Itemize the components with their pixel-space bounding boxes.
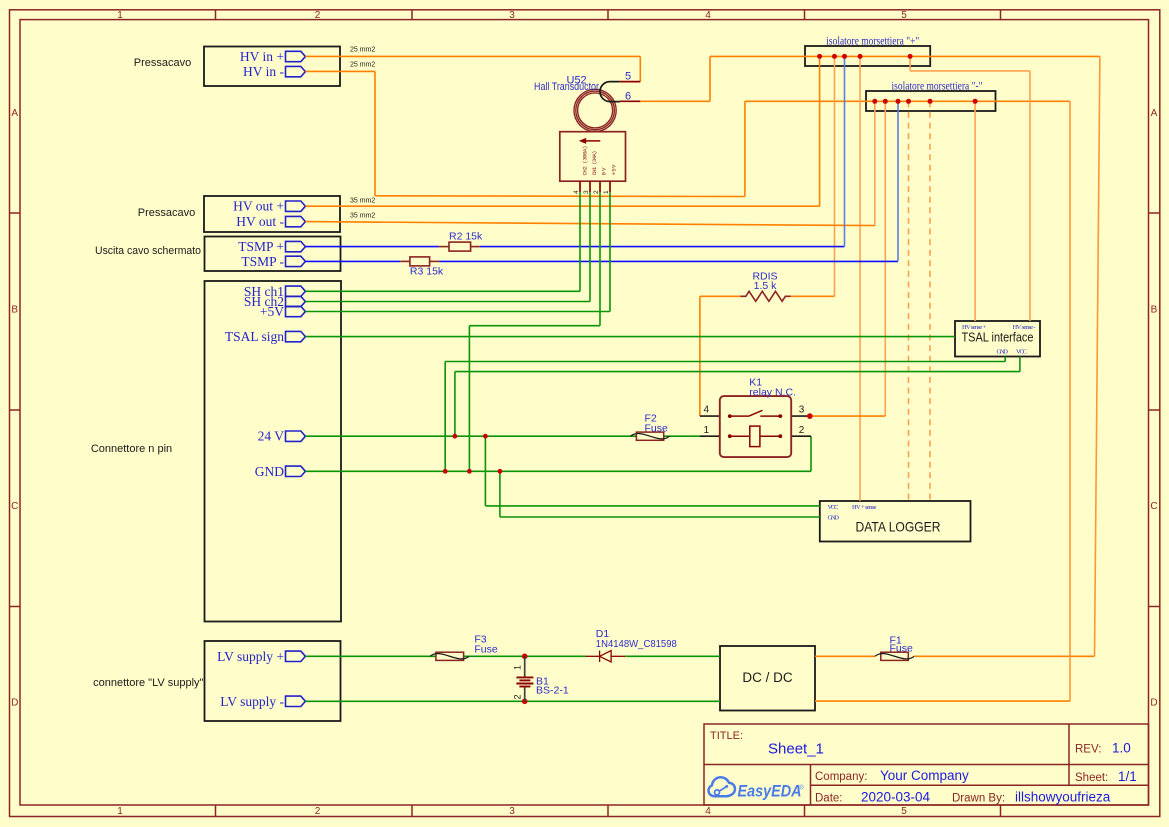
wire net HV_in+ horizontal from port to hall pin 5 riser xyxy=(305,55,640,57)
wire branch RDIS riser x834.5 xyxy=(834,56,836,296)
svg-text:R2 15k: R2 15k xyxy=(449,230,483,242)
border tick left B/C xyxy=(10,409,21,411)
wire branch HV out - riser x874.8 xyxy=(874,101,876,225)
svg-text:3: 3 xyxy=(799,405,805,416)
svg-text:1.0: 1.0 xyxy=(1112,741,1131,756)
svg-text:5: 5 xyxy=(901,806,907,817)
port symbol TSAL sign xyxy=(286,331,306,341)
svg-text:1: 1 xyxy=(513,665,523,670)
block DATA LOGGER xyxy=(820,501,971,542)
wire relay pin 4 stub xyxy=(700,415,720,417)
junction dot plus rail x834.5 xyxy=(832,54,837,59)
border tick bottom 4/5 xyxy=(804,805,806,817)
junction dot relay pin 3 xyxy=(807,413,813,419)
port symbol 24 V xyxy=(286,431,306,441)
wire DC/DC plus output to F1 left xyxy=(815,655,875,657)
svg-text:4: 4 xyxy=(705,806,711,817)
junction dot battery B1 bottom xyxy=(522,699,528,705)
svg-text:1: 1 xyxy=(117,806,123,817)
svg-text:1: 1 xyxy=(117,10,123,21)
svg-text:2: 2 xyxy=(513,694,523,699)
wire HV out + horizontal to port xyxy=(305,205,819,207)
svg-text:+5V: +5V xyxy=(260,304,284,319)
junction dot minus rail x930 xyxy=(928,99,933,104)
svg-text:HV in +: HV in + xyxy=(240,49,284,64)
connector box Pressacavo HV out xyxy=(204,196,340,232)
wire net HV_in- vertical drop at x375 xyxy=(374,71,376,195)
svg-text:2: 2 xyxy=(315,10,321,21)
svg-text:3: 3 xyxy=(583,190,590,194)
svg-text:LV supply -: LV supply - xyxy=(220,694,284,709)
wire net HV_in- horizontal run y196 xyxy=(375,195,745,198)
port symbol LV supply - xyxy=(286,696,306,706)
title block outer border xyxy=(704,724,1149,805)
title block divider left of REV/Sheet xyxy=(1068,724,1070,785)
wire net TSMP+ from port to R2 xyxy=(305,246,438,248)
svg-text:GND: GND xyxy=(997,349,1009,356)
wire DATA LOGGER VCC drop from 24V rail xyxy=(484,436,486,506)
wire TSAL GND horizontal y361.5 xyxy=(445,361,1005,363)
wire morsettiera minus rail y101 xyxy=(745,100,1070,102)
wire net hall pin 6 riser up to morsettiera plus rail xyxy=(709,56,711,101)
wire DATA LOGGER GND drop from GND rail xyxy=(499,471,501,517)
wire dashed DATA LOGGER sense riser x908.5 xyxy=(908,101,910,501)
svg-text:Your Company: Your Company xyxy=(880,768,969,783)
svg-text:C: C xyxy=(11,501,18,512)
svg-text:Company:: Company: xyxy=(815,771,867,783)
svg-text:D: D xyxy=(1150,698,1157,709)
svg-text:Sheet:: Sheet: xyxy=(1075,772,1108,784)
svg-text:DC / DC: DC / DC xyxy=(742,670,793,685)
wire net LV supply + F3 to diode D1 xyxy=(464,655,586,657)
border tick bottom 3/4 xyxy=(607,805,609,817)
svg-text:A: A xyxy=(1151,108,1158,119)
wire RDIS drop to relay pin 4 xyxy=(699,296,701,416)
wire net LV supply - port to DC/DC xyxy=(305,700,720,702)
border tick right B/C xyxy=(1149,409,1160,411)
svg-text:1.5 k: 1.5 k xyxy=(754,280,778,292)
svg-text:B: B xyxy=(1151,305,1158,316)
relay K1 coil xyxy=(728,426,782,447)
border tick top 1/2 xyxy=(215,10,217,20)
wire net TSMP+ from R2 to riser xyxy=(480,246,845,248)
svg-text:TSAL interface: TSAL interface xyxy=(962,331,1034,345)
wire TSAL GND drop to GND rail xyxy=(444,362,446,472)
svg-text:25 mm2: 25 mm2 xyxy=(350,62,375,69)
svg-text:EasyEDA: EasyEDA xyxy=(738,782,802,801)
block DC / DC converter xyxy=(720,646,815,711)
wire net 0V horizontal y325.7 xyxy=(469,325,600,327)
svg-text:5: 5 xyxy=(901,10,907,21)
connector box Pressacavo HV in xyxy=(204,47,340,87)
hall transductor U52 primary wire loop (black) xyxy=(600,82,620,102)
wire DATA LOGGER VCC horizontal y505.9 xyxy=(485,505,819,507)
junction dot battery B1 top xyxy=(522,654,528,660)
hall transductor U52 current direction arrow xyxy=(579,138,601,144)
border tick left A/B xyxy=(10,212,21,214)
wire net 0V riser from hall pin 2 xyxy=(599,192,601,325)
wire HV out - horizontal to port xyxy=(305,222,874,226)
svg-text:4: 4 xyxy=(704,405,710,416)
title block divider under title row xyxy=(704,764,1149,766)
border tick top 3/4 xyxy=(607,10,609,20)
hall transductor U52 body box xyxy=(560,132,626,182)
svg-text:TSAL sign: TSAL sign xyxy=(225,329,284,344)
wire relay pin 2 stub xyxy=(791,435,811,437)
svg-text:VCC: VCC xyxy=(1016,349,1027,356)
port symbol SH ch1 xyxy=(286,286,306,296)
wire net TSMP- from R3 to riser xyxy=(439,260,898,262)
junction dot minus rail x874.8 xyxy=(872,99,877,104)
svg-text:Drawn By:: Drawn By: xyxy=(952,793,1005,805)
connector box connettore LV supply xyxy=(205,641,341,721)
border tick top 4/5 xyxy=(804,10,806,20)
port symbol HV in + xyxy=(286,51,306,61)
svg-text:LV supply +: LV supply + xyxy=(217,649,284,664)
svg-text:DATA LOGGER: DATA LOGGER xyxy=(856,519,941,535)
junction dot GND rail x499.9 xyxy=(498,469,503,474)
svg-text:2020-03-04: 2020-03-04 xyxy=(861,790,931,805)
terminal block isolatore morsettiera "+" xyxy=(805,46,930,66)
fuse F1 body xyxy=(875,652,914,660)
wire morsettiera minus rail drop at right xyxy=(1069,101,1071,701)
title block divider right of logo xyxy=(810,765,812,806)
wire net SH ch1 riser to hall pin 4 xyxy=(579,192,581,291)
svg-text:Hall Transductor: Hall Transductor xyxy=(534,81,599,93)
svg-text:Fuse: Fuse xyxy=(645,423,669,435)
svg-text:24 V: 24 V xyxy=(258,429,285,444)
svg-text:3: 3 xyxy=(509,10,515,21)
border tick bottom 1/2 xyxy=(215,805,217,817)
svg-text:1/1: 1/1 xyxy=(1118,769,1137,784)
svg-text:Pressacavo: Pressacavo xyxy=(134,57,191,69)
border tick right A/B xyxy=(1149,212,1160,214)
wire TSAL GND stub down xyxy=(1004,357,1006,362)
svg-text:35 mm2: 35 mm2 xyxy=(350,198,375,205)
wire net hall pin 6 horizontal to riser xyxy=(640,100,710,102)
svg-text:HV + sense: HV + sense xyxy=(852,504,877,511)
resistor R2 body xyxy=(439,242,480,251)
svg-text:5: 5 xyxy=(625,71,631,83)
svg-text:HV out +: HV out + xyxy=(233,199,284,214)
junction dot minus rail x908.5 xyxy=(906,99,911,104)
port symbol GND xyxy=(286,466,306,476)
battery B1 stem bottom xyxy=(524,687,526,702)
svg-text:GND: GND xyxy=(828,515,840,522)
svg-text:CH2 (300A): CH2 (300A) xyxy=(582,146,589,176)
wire RDIS right horizontal xyxy=(789,295,835,297)
svg-text:HV in -: HV in - xyxy=(243,64,285,79)
wire RDIS left horizontal xyxy=(700,295,742,297)
hall transductor U52 toroid rings xyxy=(574,89,616,131)
svg-text:illshowyoufrieza: illshowyoufrieza xyxy=(1015,790,1111,805)
svg-text:isolatore morsettiera "+": isolatore morsettiera "+" xyxy=(826,34,919,48)
hall transductor U52 pin stubs 4,3,2,1 xyxy=(580,181,610,192)
svg-text:TITLE:: TITLE: xyxy=(710,730,743,742)
svg-text:B: B xyxy=(11,305,18,316)
border tick bottom 2/3 xyxy=(411,805,413,817)
wire net SH ch2 riser to hall pin 3 xyxy=(589,192,591,301)
wire DC/DC minus output run y701 xyxy=(815,700,1070,702)
battery B1 stem top xyxy=(524,656,526,677)
wire net HV_in- horizontal from port xyxy=(305,70,375,72)
svg-text:GND: GND xyxy=(255,464,284,479)
svg-text:2: 2 xyxy=(315,806,321,817)
junction dot plus rail x819.6 xyxy=(817,54,822,59)
wire net LV supply + port to F3 xyxy=(305,655,436,657)
junction dot GND rail x445.2 xyxy=(443,469,448,474)
svg-text:connettore "LV supply": connettore "LV supply" xyxy=(93,677,203,689)
wire net TSMP+ riser to plus rail xyxy=(844,56,846,246)
wire DATA LOGGER GND horizontal y517 xyxy=(500,516,820,518)
wire net HV_in- riser at x745 up to morsettiera minus rail xyxy=(744,101,746,196)
svg-text:0V: 0V xyxy=(601,167,608,176)
block TSAL interface xyxy=(955,321,1040,357)
connector box Uscita cavo schermato xyxy=(205,237,341,272)
wire net 24V horizontal port to F2 xyxy=(305,435,636,437)
wire net 0V drop to GND rail xyxy=(468,326,470,472)
port symbol HV out + xyxy=(286,201,306,211)
junction dot 24V rail x485.4 xyxy=(483,434,488,439)
svg-text:HV sense -: HV sense - xyxy=(1013,324,1036,331)
svg-text:Pressacavo: Pressacavo xyxy=(138,207,195,219)
svg-text:25 mm2: 25 mm2 xyxy=(350,47,375,54)
svg-text:Date:: Date: xyxy=(815,793,843,805)
svg-text:4: 4 xyxy=(705,10,711,21)
svg-text:VCC: VCC xyxy=(828,504,839,511)
junction dot plus rail x844.5 xyxy=(842,54,847,59)
wire net +5V riser to hall pin 1 xyxy=(609,192,611,311)
wire branch DATA LOGGER HV+sense riser x860.1 xyxy=(859,56,861,501)
border tick top 2/3 xyxy=(411,10,413,20)
wire net SH ch1 horizontal xyxy=(305,290,580,292)
border tick bottom 5/6 xyxy=(1000,805,1002,817)
svg-text:isolatore morsettiera "-": isolatore morsettiera "-" xyxy=(892,79,983,93)
border tick left C/D xyxy=(10,606,21,608)
svg-text:2: 2 xyxy=(799,425,805,436)
connector box Connettore n pin xyxy=(205,281,342,622)
svg-text:relay N.C.: relay N.C. xyxy=(749,387,796,399)
port symbol TSMP - xyxy=(286,256,306,266)
wire net SH ch2 horizontal xyxy=(305,301,590,303)
svg-text:Connettore n pin: Connettore n pin xyxy=(91,443,172,455)
svg-text:Fuse: Fuse xyxy=(474,644,498,656)
junction dot minus rail x975.1 xyxy=(973,99,978,104)
svg-text:Sheet_1: Sheet_1 xyxy=(768,741,824,758)
port symbol TSMP + xyxy=(286,241,306,251)
wire TSAL HV sense - drop x1030 xyxy=(1029,71,1031,321)
resistor R3 body xyxy=(400,257,439,266)
wire net TSMP- from port to R3 xyxy=(305,260,400,262)
EasyEDA logo cloud icon xyxy=(708,777,735,796)
hall transductor U52 pin 5 stub xyxy=(620,81,641,83)
wire F1 right to DC/DC rail xyxy=(914,655,1095,657)
junction dot minus rail x898 xyxy=(896,99,901,104)
fuse F3 body xyxy=(430,652,469,660)
wire TSAL VCC drop to 24V rail xyxy=(454,372,456,437)
wire relay pin 3 stub xyxy=(791,415,810,417)
svg-text:2: 2 xyxy=(593,190,600,194)
svg-text:A: A xyxy=(11,108,18,119)
svg-text:TSMP +: TSMP + xyxy=(238,239,284,254)
wire branch TSAL HV sense + riser x975.1 xyxy=(974,101,976,321)
wire TSAL VCC horizontal y371.6 xyxy=(455,371,1020,373)
svg-text:CH1 (34A): CH1 (34A) xyxy=(591,151,598,176)
svg-text:6: 6 xyxy=(625,91,631,103)
svg-text:R3 15k: R3 15k xyxy=(410,265,444,277)
port symbol HV out - xyxy=(286,216,306,226)
border tick top 5/6 xyxy=(1000,10,1002,20)
wire morsettiera plus rail y56 xyxy=(710,55,1100,57)
wire branch relay pin 3 riser x885.3 xyxy=(884,101,886,416)
battery B1 plates xyxy=(516,677,533,686)
wire net GND horizontal rail xyxy=(305,470,811,472)
diode D1 body xyxy=(586,651,626,662)
svg-text:+5V: +5V xyxy=(611,164,618,176)
wire branch HV out + riser x819.6 xyxy=(819,56,821,206)
relay K1 N.C. contact xyxy=(728,410,782,418)
svg-text:®: ® xyxy=(799,784,804,792)
border tick right C/D xyxy=(1149,606,1160,608)
wire net HV_in+ riser down to hall pin 5 xyxy=(639,56,641,81)
junction dot GND rail x469.4 xyxy=(467,469,472,474)
wire net TSMP- riser to minus rail xyxy=(897,101,899,261)
svg-text:4: 4 xyxy=(573,190,580,194)
wire net +5V horizontal xyxy=(305,311,610,313)
junction dot plus rail x910.1 xyxy=(908,54,913,59)
svg-text:Uscita cavo schermato: Uscita cavo schermato xyxy=(95,245,201,257)
svg-text:D: D xyxy=(11,698,18,709)
svg-text:1: 1 xyxy=(704,425,710,436)
wire net TSAL sign horizontal to TSAL interface xyxy=(305,336,955,338)
relay K1 body box xyxy=(720,396,791,457)
port symbol HV in - xyxy=(286,66,306,76)
wire branch TSAL HV sense - stub down from plus rail xyxy=(909,56,911,71)
svg-text:1N4148W_C81598: 1N4148W_C81598 xyxy=(596,638,677,650)
title block divider between Company and Date rows xyxy=(811,784,1149,786)
wire relay pin 2 drop to GND rail xyxy=(810,436,812,471)
port symbol +5V xyxy=(286,306,306,316)
junction dot 24V rail x454.9 xyxy=(453,434,458,439)
wire net 24V from F2 to relay pin 1 xyxy=(664,435,700,437)
svg-text:HV out -: HV out - xyxy=(236,214,284,229)
wire TSAL VCC stub down xyxy=(1019,357,1021,372)
wire net LV supply + D1 to DC/DC xyxy=(625,655,720,657)
resistor RDIS zigzag body xyxy=(741,291,791,301)
svg-text:HV sense +: HV sense + xyxy=(962,324,986,331)
junction dot plus rail x860.1 xyxy=(858,54,863,59)
fuse F2 body xyxy=(631,432,670,440)
svg-text:35 mm2: 35 mm2 xyxy=(350,213,375,220)
svg-text:REV:: REV: xyxy=(1075,744,1101,756)
wire morsettiera plus rail drop to F1 (right edge) xyxy=(1095,56,1100,656)
svg-text:3: 3 xyxy=(509,806,515,817)
terminal block isolatore morsettiera "-" xyxy=(866,91,996,111)
hall transductor U52 pin 6 stub xyxy=(620,100,641,102)
port symbol LV supply + xyxy=(286,651,306,661)
junction dot minus rail x885.3 xyxy=(883,99,888,104)
svg-text:C: C xyxy=(1150,501,1157,512)
wire TSAL HV sense - horizontal y71 xyxy=(910,70,1030,72)
svg-text:BS-2-1: BS-2-1 xyxy=(536,685,569,697)
svg-text:1: 1 xyxy=(603,190,610,194)
wire relay pin 3 horizontal xyxy=(810,415,886,417)
wire relay pin 1 stub xyxy=(700,435,720,437)
wire dashed DATA LOGGER sense riser x930 xyxy=(929,101,931,501)
svg-text:Fuse: Fuse xyxy=(890,643,914,655)
port symbol SH ch2 xyxy=(286,296,306,306)
svg-text:TSMP -: TSMP - xyxy=(241,254,284,269)
